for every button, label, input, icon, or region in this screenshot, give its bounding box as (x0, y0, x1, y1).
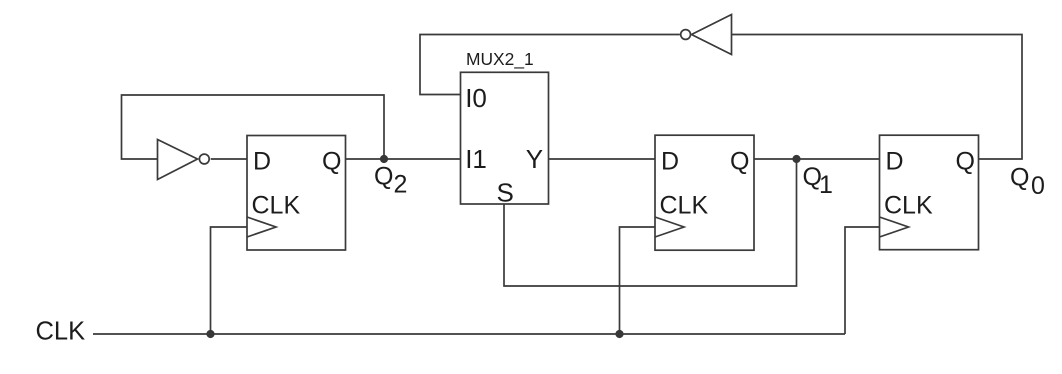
wire CLK bus (93, 333, 845, 335)
wire U1 output to FF1 D (211, 158, 247, 160)
flip-flop FF3 (880, 135, 979, 250)
svg-text:CLK: CLK (252, 192, 301, 220)
svg-text:MUX2_1: MUX2_1 (466, 49, 534, 69)
wire MUX Y to FF2 D (549, 158, 656, 160)
wire FF2 clock to CLK bus (620, 227, 656, 334)
wire FF3 clock to CLK bus (845, 227, 880, 334)
svg-text:D: D (886, 148, 904, 176)
svg-text:Q: Q (730, 148, 749, 176)
svg-text:D: D (253, 148, 271, 176)
wire Q0 to inverter U2 input (732, 35, 1023, 160)
wire FF1 Q to MUX I1 (node Q2) (346, 158, 461, 160)
svg-text:0: 0 (1031, 172, 1045, 200)
node Q2 junction dot (380, 155, 388, 163)
svg-text:D: D (661, 148, 679, 176)
svg-text:2: 2 (394, 171, 408, 199)
CLK bus junction dot (FF2 branch) (615, 330, 623, 338)
svg-text:Q: Q (956, 148, 975, 176)
svg-text:Q: Q (374, 163, 393, 191)
svg-text:Q: Q (322, 148, 341, 176)
svg-text:Q: Q (1010, 163, 1029, 191)
flip-flop FF1 (247, 136, 346, 251)
svg-text:CLK: CLK (884, 192, 933, 220)
svg-text:I1: I1 (465, 144, 487, 174)
svg-text:Y: Y (526, 144, 543, 174)
node Q1 junction dot (792, 155, 800, 163)
svg-text:CLK: CLK (660, 192, 709, 220)
svg-text:1: 1 (819, 171, 833, 199)
wire FF1 clock to CLK bus (211, 227, 248, 334)
CLK bus junction dot (FF1 branch) (206, 330, 214, 338)
svg-text:S: S (497, 177, 514, 207)
wire U2 output to MUX I0 (420, 35, 680, 95)
inverter U2 (692, 15, 732, 55)
wire Q2 feedback to inverter U1 input (122, 95, 385, 159)
wire MUX S to node Q1 (504, 159, 797, 286)
inverter U1 (158, 140, 198, 180)
svg-text:CLK: CLK (36, 318, 86, 346)
svg-text:I0: I0 (465, 83, 487, 113)
MUX U3 box (461, 72, 549, 204)
wire FF2 Q to FF3 D (node Q1) (754, 158, 880, 160)
flip-flop FF2 (655, 135, 754, 250)
